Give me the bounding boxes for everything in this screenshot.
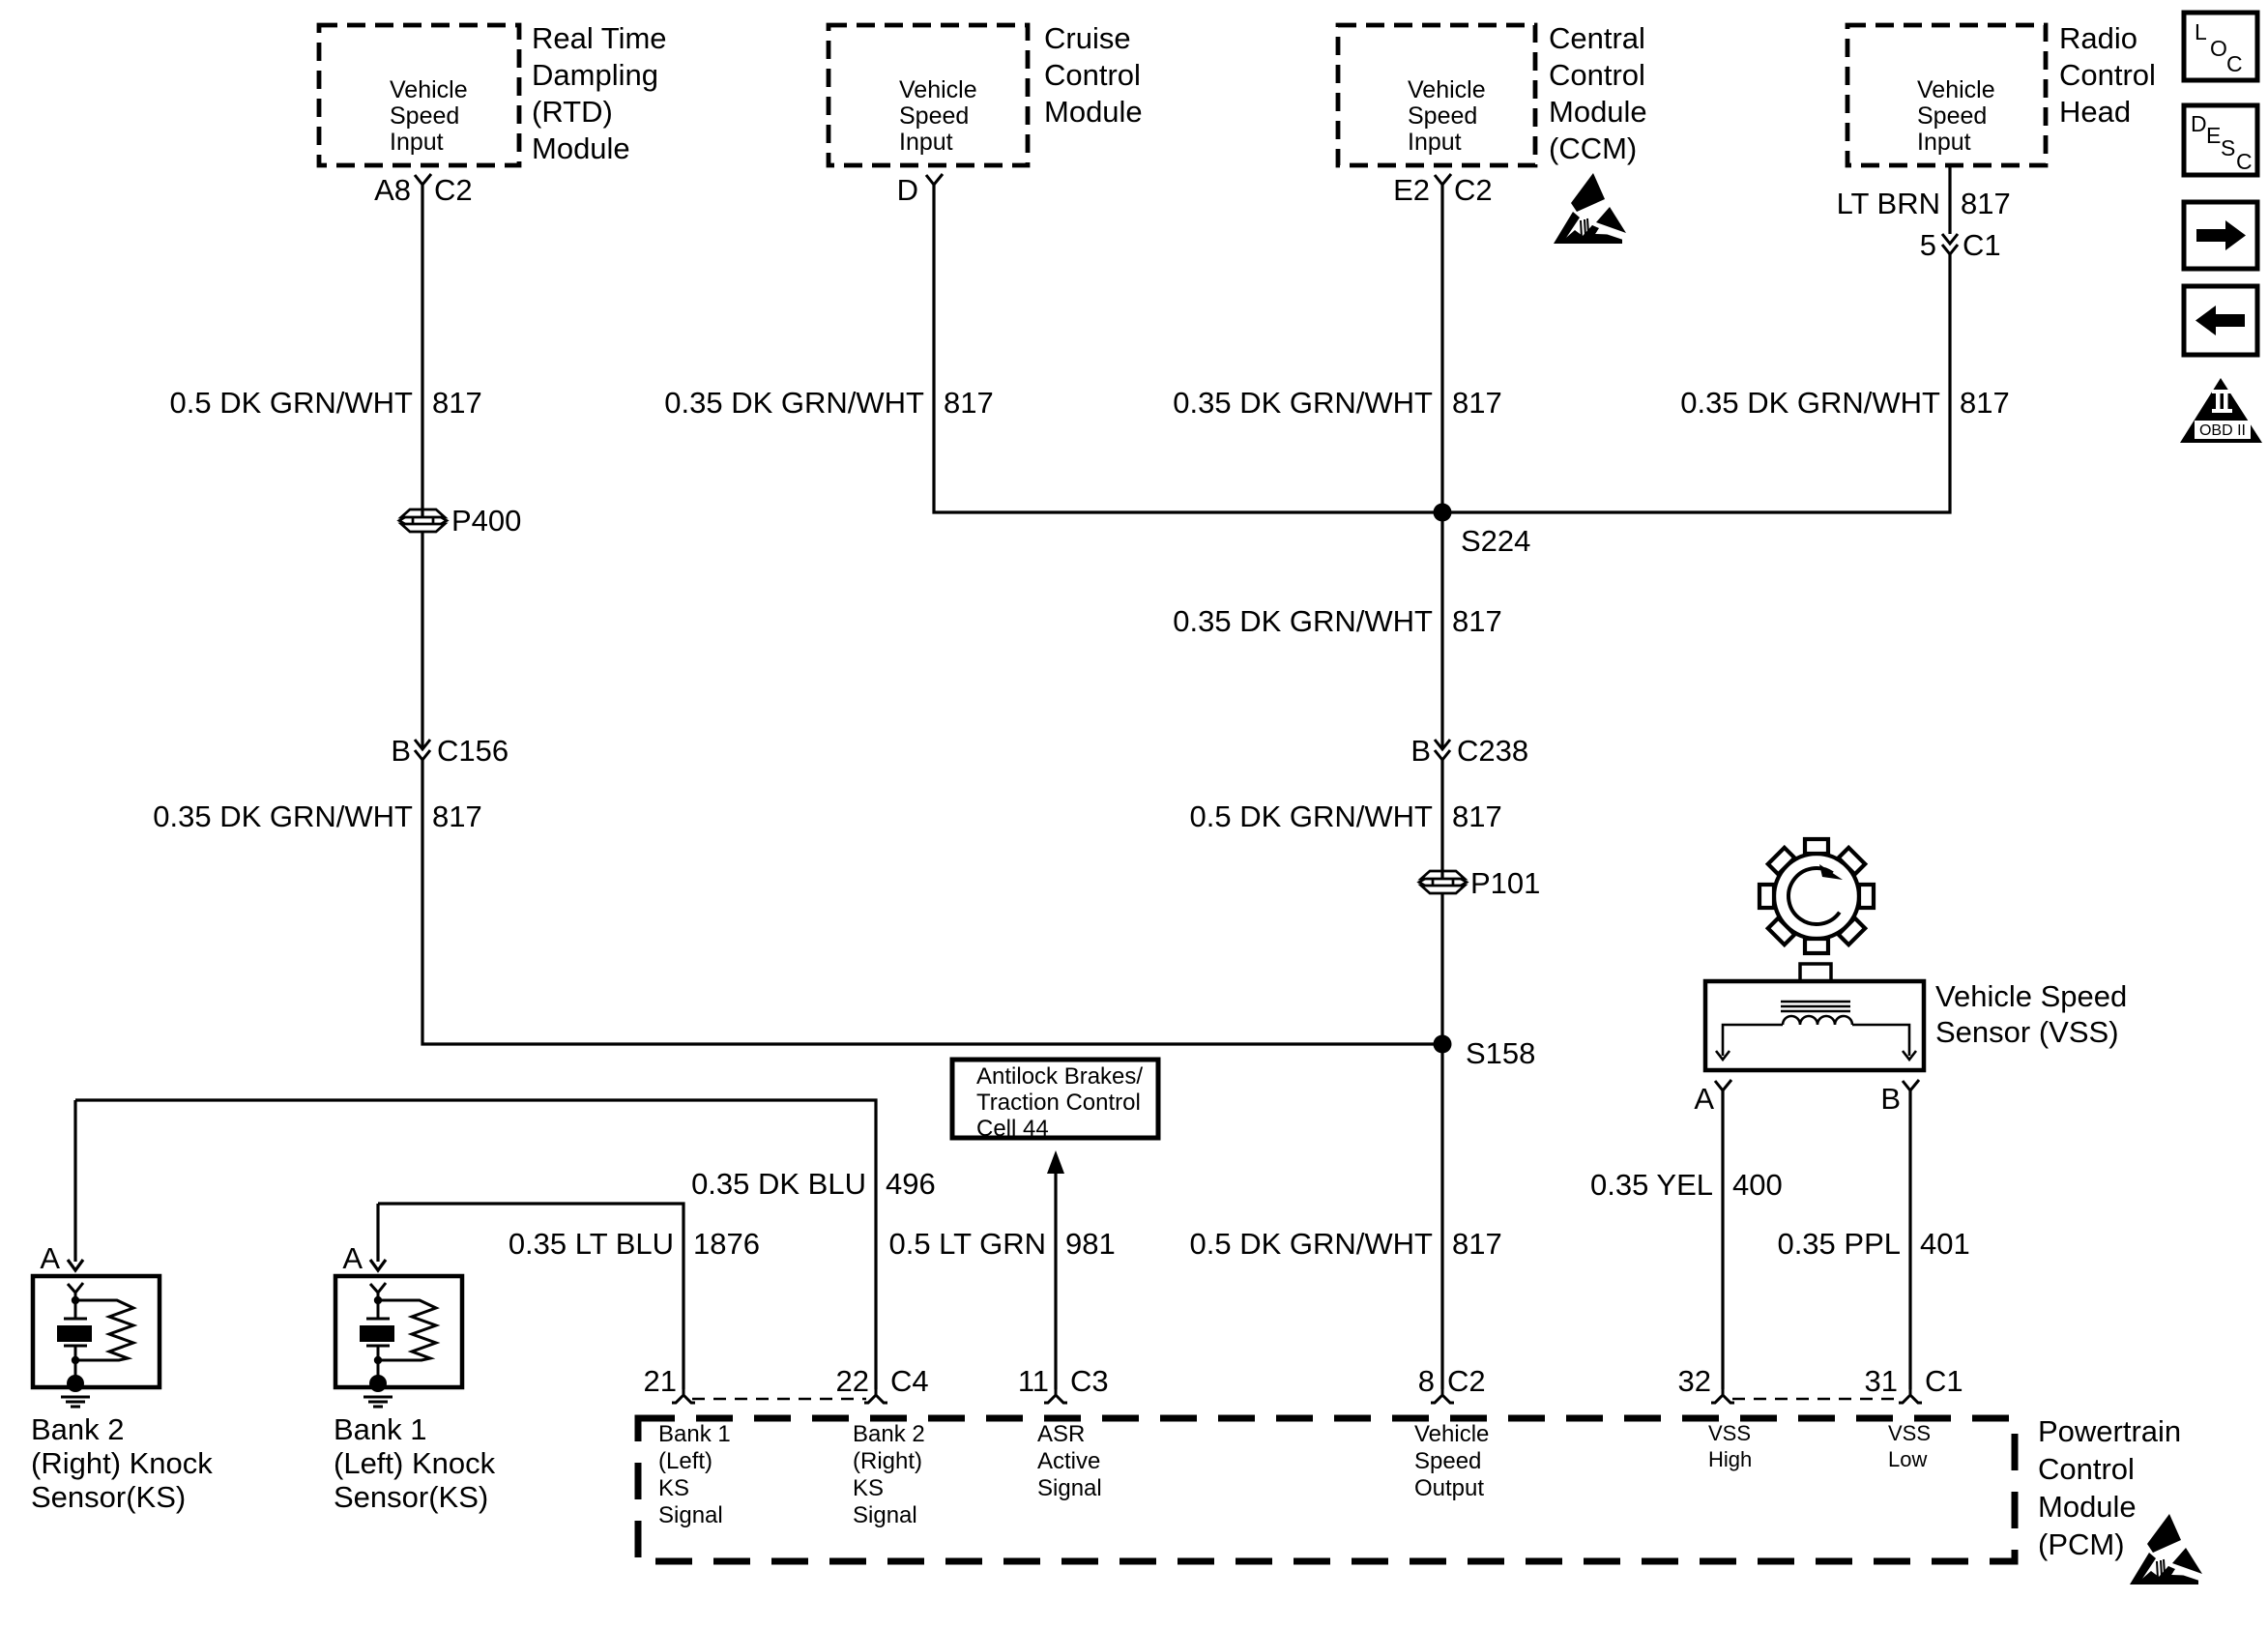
svg-text:Module: Module xyxy=(1549,95,1647,129)
wire label 0.5 DK GRN/WHT 817 (to pin 8) xyxy=(1190,1227,1502,1261)
in-line connector C238 xyxy=(1410,734,1528,768)
svg-text:KS: KS xyxy=(658,1475,689,1501)
svg-text:(Right) Knock: (Right) Knock xyxy=(31,1446,213,1480)
PCM pin 32 xyxy=(1678,1364,1734,1403)
Bank 2 knock sensor box xyxy=(33,1276,160,1407)
svg-text:Low: Low xyxy=(1888,1447,1927,1471)
svg-text:Control: Control xyxy=(1044,58,1141,92)
in-line connector 5 C1 xyxy=(1920,228,2001,262)
svg-text:0.35 DK GRN/WHT: 0.35 DK GRN/WHT xyxy=(664,386,924,420)
svg-text:Head: Head xyxy=(2059,95,2131,129)
svg-text:0.35 DK GRN/WHT: 0.35 DK GRN/WHT xyxy=(153,799,413,833)
wire label 0.35 DK GRN/WHT 817 (cruise) xyxy=(664,386,993,420)
svg-text:Bank 1: Bank 1 xyxy=(658,1421,731,1447)
sidebar right-arrow box xyxy=(2184,202,2257,269)
wire label 0.35 LT BLU 1876 xyxy=(509,1227,760,1261)
svg-text:Cruise: Cruise xyxy=(1044,21,1131,55)
svg-text:Dampling: Dampling xyxy=(532,58,658,92)
sidebar DESC box xyxy=(2184,105,2257,175)
svg-text:(Left) Knock: (Left) Knock xyxy=(334,1446,496,1480)
svg-text:D: D xyxy=(897,173,918,207)
PCM pin 22 / C4 xyxy=(836,1364,929,1403)
svg-text:C1: C1 xyxy=(1963,228,2001,262)
svg-text:Signal: Signal xyxy=(1037,1475,1102,1501)
svg-text:A: A xyxy=(40,1241,60,1275)
svg-text:Input: Input xyxy=(899,129,953,156)
VSS Low wire to pin 31 xyxy=(1908,1090,1911,1389)
Cruise Control module dashed box xyxy=(829,25,1028,165)
svg-text:C: C xyxy=(2236,149,2253,174)
svg-text:5: 5 xyxy=(1920,228,1936,262)
svg-text:A8: A8 xyxy=(374,173,411,207)
svg-text:Sensor(KS): Sensor(KS) xyxy=(31,1480,186,1514)
svg-text:Control: Control xyxy=(1549,58,1645,92)
svg-text:ASR: ASR xyxy=(1037,1421,1085,1447)
svg-text:P400: P400 xyxy=(451,504,521,538)
svg-text:Speed: Speed xyxy=(899,102,969,130)
svg-text:S224: S224 xyxy=(1461,524,1530,558)
VSS sensor box xyxy=(1705,964,1924,1070)
PCM label ASR Active Signal xyxy=(1037,1421,1102,1501)
Cruise Control module title xyxy=(1044,21,1143,129)
svg-text:Vehicle: Vehicle xyxy=(1917,76,1995,103)
ASR active signal wire with arrow xyxy=(1047,1150,1064,1389)
Radio Control Head title xyxy=(2059,21,2156,129)
svg-text:C2: C2 xyxy=(1447,1364,1486,1398)
svg-text:817: 817 xyxy=(1452,386,1502,420)
radio wire down to S224 line xyxy=(1442,254,1950,512)
svg-text:Traction Control: Traction Control xyxy=(976,1090,1141,1116)
svg-text:L: L xyxy=(2195,19,2207,44)
VSS High wire to pin 32 xyxy=(1721,1090,1724,1389)
svg-text:C4: C4 xyxy=(890,1364,929,1398)
wire from P400 to C156 xyxy=(421,532,423,749)
svg-text:Vehicle: Vehicle xyxy=(390,76,468,103)
svg-text:A: A xyxy=(1694,1082,1714,1116)
PCM label VSS High xyxy=(1708,1421,1752,1471)
CCM wire down to C238 xyxy=(1440,185,1443,749)
svg-text:0.5 DK GRN/WHT: 0.5 DK GRN/WHT xyxy=(1190,1227,1434,1261)
svg-text:Cell 44: Cell 44 xyxy=(976,1116,1049,1142)
svg-text:817: 817 xyxy=(1961,187,2011,220)
svg-text:OBD II: OBD II xyxy=(2199,422,2246,439)
pin E2 C2 of CCM xyxy=(1393,173,1493,207)
svg-text:Speed: Speed xyxy=(1408,102,1477,130)
svg-text:E: E xyxy=(2206,123,2221,148)
Bank 2 knock sensor wire from DK BLU line xyxy=(68,1100,83,1270)
wire C238 to P101 xyxy=(1440,760,1443,879)
VSS pin A xyxy=(1694,1080,1731,1116)
svg-text:VSS: VSS xyxy=(1888,1421,1931,1445)
wire label 0.35 DK GRN/WHT 817 (below S224) xyxy=(1173,604,1501,638)
svg-text:401: 401 xyxy=(1920,1227,1970,1261)
svg-text:B: B xyxy=(391,734,411,768)
svg-text:Module: Module xyxy=(2038,1490,2137,1524)
wire 817 from RTD to P400 xyxy=(421,185,423,517)
PCM dashed border xyxy=(638,1418,2015,1561)
wire from C156 down and right to S158 xyxy=(422,760,1442,1044)
svg-text:0.5 DK GRN/WHT: 0.5 DK GRN/WHT xyxy=(170,386,414,420)
svg-text:(PCM): (PCM) xyxy=(2038,1527,2125,1561)
svg-text:B: B xyxy=(1410,734,1431,768)
svg-text:High: High xyxy=(1708,1447,1752,1471)
svg-text:31: 31 xyxy=(1865,1364,1898,1398)
svg-text:0.35 DK GRN/WHT: 0.35 DK GRN/WHT xyxy=(1173,386,1433,420)
svg-text:0.5 LT GRN: 0.5 LT GRN xyxy=(888,1227,1046,1261)
connector P101 xyxy=(1419,866,1540,900)
svg-text:Speed: Speed xyxy=(1917,102,1987,130)
ESD symbol (PCM) xyxy=(2130,1514,2202,1584)
svg-text:C156: C156 xyxy=(437,734,509,768)
wire label 0.35 DK GRN/WHT 817 (ccm) xyxy=(1173,386,1501,420)
svg-text:C3: C3 xyxy=(1070,1364,1109,1398)
svg-text:C2: C2 xyxy=(434,173,473,207)
Bank 1 knock sensor wire from LT BLU line xyxy=(370,1204,386,1270)
RTD module dashed box xyxy=(319,25,519,165)
svg-text:Input: Input xyxy=(390,129,444,156)
svg-text:(Right): (Right) xyxy=(853,1448,922,1474)
svg-text:Input: Input xyxy=(1408,129,1462,156)
Bank 1 knock sensor box xyxy=(335,1276,462,1407)
RTD module title xyxy=(532,21,667,165)
svg-text:C2: C2 xyxy=(1454,173,1493,207)
svg-text:817: 817 xyxy=(944,386,994,420)
svg-text:P101: P101 xyxy=(1470,866,1540,900)
svg-text:(Left): (Left) xyxy=(658,1448,712,1474)
svg-text:Powertrain: Powertrain xyxy=(2038,1414,2181,1448)
svg-text:Active: Active xyxy=(1037,1448,1100,1474)
svg-text:496: 496 xyxy=(886,1167,936,1201)
svg-text:Speed: Speed xyxy=(1414,1448,1481,1474)
svg-text:A: A xyxy=(342,1241,363,1275)
svg-text:817: 817 xyxy=(432,799,482,833)
svg-text:Sensor (VSS): Sensor (VSS) xyxy=(1935,1015,2119,1049)
svg-text:0.5 DK GRN/WHT: 0.5 DK GRN/WHT xyxy=(1190,799,1434,833)
sidebar OBD II triangle xyxy=(2180,378,2262,443)
svg-text:1876: 1876 xyxy=(693,1227,760,1261)
svg-text:Module: Module xyxy=(532,131,630,165)
svg-text:Bank 2: Bank 2 xyxy=(31,1412,125,1446)
svg-text:Real Time: Real Time xyxy=(532,21,667,55)
in-line connector C156 xyxy=(391,734,509,768)
PCM label Bank 1 KS Signal xyxy=(658,1421,731,1528)
PCM title xyxy=(2038,1414,2181,1561)
cruise wire down to S224 line xyxy=(934,185,1442,512)
Antilock Brakes / Traction Control box xyxy=(952,1060,1158,1142)
svg-text:VSS: VSS xyxy=(1708,1421,1751,1445)
pin D of cruise module xyxy=(897,173,943,207)
svg-text:C: C xyxy=(2226,51,2243,76)
wire label 0.35 PPL 401 xyxy=(1777,1227,1969,1261)
svg-text:817: 817 xyxy=(1960,386,2010,420)
CCM module title xyxy=(1549,21,1647,165)
svg-text:Speed: Speed xyxy=(390,102,459,130)
svg-text:11: 11 xyxy=(1018,1364,1049,1398)
dashed connector line between pin 21 and 22 xyxy=(692,1398,866,1400)
svg-text:S158: S158 xyxy=(1466,1036,1535,1070)
svg-text:(CCM): (CCM) xyxy=(1549,131,1637,165)
svg-text:Vehicle: Vehicle xyxy=(1408,76,1486,103)
svg-text:Sensor(KS): Sensor(KS) xyxy=(334,1480,488,1514)
DK BLU 496 wire to pin 22 xyxy=(75,1100,876,1389)
svg-text:8: 8 xyxy=(1418,1364,1435,1398)
svg-text:KS: KS xyxy=(853,1475,884,1501)
svg-text:32: 32 xyxy=(1678,1364,1711,1398)
svg-text:Bank 1: Bank 1 xyxy=(334,1412,427,1446)
svg-text:Radio: Radio xyxy=(2059,21,2137,55)
svg-text:Control: Control xyxy=(2038,1452,2135,1486)
svg-text:0.35 DK BLU: 0.35 DK BLU xyxy=(691,1167,866,1201)
LT BLU 1876 wire to pin 21 xyxy=(378,1204,683,1389)
svg-text:Signal: Signal xyxy=(853,1502,917,1528)
svg-text:Control: Control xyxy=(2059,58,2156,92)
Bank 2 sensor label xyxy=(31,1412,213,1514)
svg-text:981: 981 xyxy=(1065,1227,1116,1261)
svg-text:Output: Output xyxy=(1414,1475,1484,1501)
PCM pin 21 xyxy=(644,1364,695,1403)
svg-text:Vehicle: Vehicle xyxy=(899,76,977,103)
wire label 0.5 LT GRN 981 xyxy=(888,1227,1115,1261)
Bank 1 sensor label xyxy=(334,1412,496,1514)
svg-text:817: 817 xyxy=(432,386,482,420)
svg-text:Vehicle Speed: Vehicle Speed xyxy=(1935,979,2127,1013)
VSS reluctor gear xyxy=(1759,839,1874,953)
svg-text:Signal: Signal xyxy=(658,1502,723,1528)
svg-text:Module: Module xyxy=(1044,95,1143,129)
svg-text:E2: E2 xyxy=(1393,173,1430,207)
VSS title xyxy=(1935,979,2127,1049)
PCM pin 11 / C3 xyxy=(1018,1364,1109,1403)
sidebar LOC box xyxy=(2184,13,2257,80)
wire label 0.35 DK GRN/WHT 817 (radio) xyxy=(1680,386,2009,420)
svg-text:0.35 DK GRN/WHT: 0.35 DK GRN/WHT xyxy=(1680,386,1940,420)
CCM module dashed box xyxy=(1338,25,1535,165)
wire label 0.35 DK GRN/WHT 817 (left) xyxy=(153,799,481,833)
Radio Control Head dashed box xyxy=(1847,25,2046,165)
PCM label Vehicle Speed Output xyxy=(1414,1421,1489,1501)
ESD symbol (CCM) xyxy=(1554,173,1626,244)
sidebar left-arrow box xyxy=(2184,286,2257,355)
PCM label VSS Low xyxy=(1888,1421,1931,1471)
svg-text:Input: Input xyxy=(1917,129,1971,156)
pin A8 C2 of RTD xyxy=(374,173,473,207)
PCM pin 31 / C1 xyxy=(1865,1364,1963,1403)
svg-text:O: O xyxy=(2210,36,2227,61)
svg-text:Vehicle: Vehicle xyxy=(1414,1421,1489,1447)
svg-text:D: D xyxy=(2191,111,2207,136)
dashed connector line between pin 32 and 31 xyxy=(1732,1398,1901,1400)
svg-text:400: 400 xyxy=(1732,1168,1783,1202)
svg-text:Central: Central xyxy=(1549,21,1645,55)
svg-text:Bank 2: Bank 2 xyxy=(853,1421,925,1447)
svg-text:817: 817 xyxy=(1452,799,1502,833)
svg-text:B: B xyxy=(1880,1082,1901,1116)
svg-text:22: 22 xyxy=(836,1364,869,1398)
svg-text:LT BRN: LT BRN xyxy=(1837,187,1940,220)
splice S158 xyxy=(1434,1035,1536,1071)
PCM pin 8 / C2 xyxy=(1418,1364,1486,1403)
svg-text:0.35 PPL: 0.35 PPL xyxy=(1777,1227,1901,1261)
wire label 0.5 DK GRN/WHT 817 xyxy=(170,386,482,420)
VSS pin B xyxy=(1880,1080,1919,1116)
svg-text:(RTD): (RTD) xyxy=(532,95,613,129)
svg-text:21: 21 xyxy=(644,1364,677,1398)
wire label 0.35 YEL 400 xyxy=(1590,1168,1783,1202)
svg-text:0.35 LT BLU: 0.35 LT BLU xyxy=(509,1227,674,1261)
PCM label Bank 2 KS Signal xyxy=(853,1421,925,1528)
wire label 0.35 DK BLU 496 xyxy=(691,1167,936,1201)
wire P101 to pin 8 xyxy=(1440,893,1443,1389)
svg-text:Antilock Brakes/: Antilock Brakes/ xyxy=(976,1063,1143,1090)
svg-text:S: S xyxy=(2221,135,2235,160)
svg-text:0.35 YEL: 0.35 YEL xyxy=(1590,1168,1713,1202)
svg-text:C1: C1 xyxy=(1925,1364,1963,1398)
svg-text:0.35 DK GRN/WHT: 0.35 DK GRN/WHT xyxy=(1173,604,1433,638)
splice S224 xyxy=(1434,504,1531,559)
svg-text:C238: C238 xyxy=(1457,734,1528,768)
wire label LT BRN 817 xyxy=(1837,187,2011,220)
svg-text:817: 817 xyxy=(1452,1227,1502,1261)
radio wire from box to C1 connector xyxy=(1948,165,1951,234)
wire label 0.5 DK GRN/WHT 817 (above P101) xyxy=(1190,799,1502,833)
connector P400 xyxy=(399,504,521,538)
svg-text:817: 817 xyxy=(1452,604,1502,638)
